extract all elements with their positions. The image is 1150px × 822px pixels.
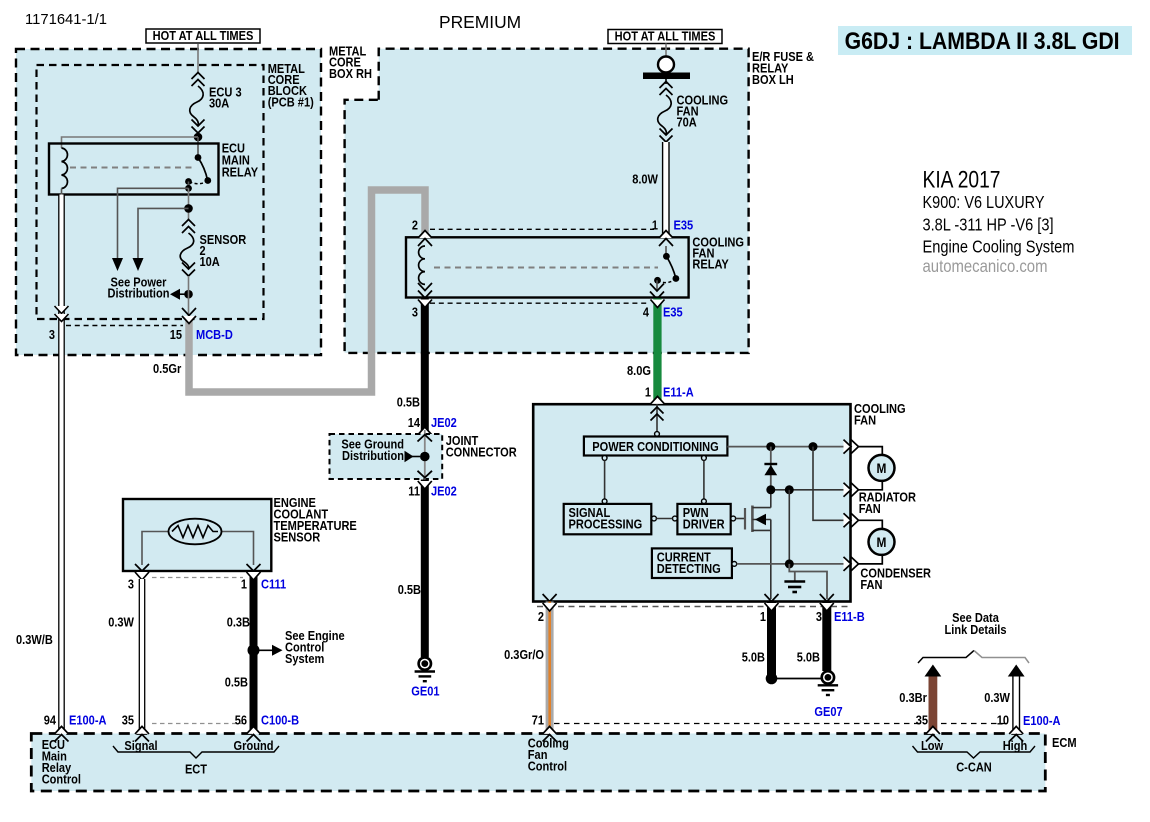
wire PC to pwn driver xyxy=(703,461,705,500)
svg-text:15: 15 xyxy=(170,327,182,342)
svg-text:1: 1 xyxy=(241,577,247,592)
wire from switch to down-arrow 1 xyxy=(118,188,189,258)
svg-text:0.3Br: 0.3Br xyxy=(899,690,927,705)
connector E100-A dashed line (right) xyxy=(554,723,925,725)
fuse SENSOR 2 10A xyxy=(180,220,195,277)
svg-text:0.5B: 0.5B xyxy=(398,582,421,597)
connector C111 dashed line xyxy=(152,577,243,579)
label HOT AT ALL TIMES (left) xyxy=(146,29,260,43)
chevron ECM pin 35 right xyxy=(926,726,940,734)
svg-text:8.0G: 8.0G xyxy=(627,363,651,378)
svg-text:E100-A: E100-A xyxy=(1023,713,1061,728)
signal processing box xyxy=(564,504,652,534)
wire PWN to mosfet gate xyxy=(731,516,736,521)
svg-text:M: M xyxy=(877,460,887,476)
svg-text:0.5B: 0.5B xyxy=(397,395,420,410)
wire from node to relay coil xyxy=(62,137,199,148)
ground GE07 xyxy=(822,671,834,683)
svg-text:35: 35 xyxy=(122,713,134,728)
relay coil (cooling fan relay) xyxy=(419,246,425,284)
wire from switch down below box xyxy=(188,188,190,219)
ground GE01 xyxy=(419,657,431,669)
output chevrons on module right edge xyxy=(844,440,852,454)
chevron module pin 2 xyxy=(543,594,557,602)
svg-text:E35: E35 xyxy=(663,305,683,320)
svg-text:10: 10 xyxy=(997,713,1009,728)
node at sensor fuse output xyxy=(184,290,193,299)
motor M1 radiator fan xyxy=(869,455,895,481)
svg-text:ECT: ECT xyxy=(185,762,207,777)
svg-text:G6DJ : LAMBDA II 3.8L GDI: G6DJ : LAMBDA II 3.8L GDI xyxy=(845,28,1120,55)
svg-text:0.3B: 0.3B xyxy=(227,615,250,630)
chevron module pin 3 xyxy=(820,594,834,602)
svg-text:MCB-D: MCB-D xyxy=(196,327,233,342)
down-arrow 2 (see power distribution) xyxy=(133,258,144,271)
cooling fan relay box xyxy=(406,237,689,297)
relay switch (cooling fan relay) xyxy=(665,246,667,256)
svg-text:C111: C111 xyxy=(261,577,286,592)
chevron ECM pin 10 right xyxy=(1009,726,1023,734)
wire node to current detect junction xyxy=(788,490,790,564)
data link bracket xyxy=(918,651,974,664)
svg-text:BOX LH: BOX LH xyxy=(752,72,794,87)
wire 0.3Gr/O module pin 2 to ECM pin 71 xyxy=(546,602,554,733)
label HOT AT ALL TIMES (right) xyxy=(608,30,722,44)
relay switch contacts xyxy=(195,154,202,161)
svg-text:RELAY: RELAY xyxy=(222,165,259,180)
svg-text:1171641-1/1: 1171641-1/1 xyxy=(25,12,107,28)
wire 0.3B black sensor pin 1 to ECM pin 56 xyxy=(250,571,258,733)
svg-text:SENSOR: SENSOR xyxy=(274,530,321,545)
svg-text:FAN: FAN xyxy=(859,501,881,516)
svg-text:HOT AT ALL TIMES: HOT AT ALL TIMES xyxy=(153,28,254,43)
svg-text:0.3W/B: 0.3W/B xyxy=(16,632,53,647)
svg-text:70A: 70A xyxy=(677,115,698,130)
svg-text:94: 94 xyxy=(44,713,57,728)
fusible link circle xyxy=(658,57,674,73)
motor M2 condenser fan xyxy=(869,529,895,555)
chevron sensor pin 1 xyxy=(247,564,261,571)
wire green entry to power conditioning xyxy=(656,404,658,434)
svg-text:automecanico.com: automecanico.com xyxy=(923,256,1048,276)
connector E11-B dashed line xyxy=(537,606,848,608)
svg-text:2: 2 xyxy=(412,218,418,233)
svg-text:8.0W: 8.0W xyxy=(632,172,658,187)
metal core block PCB#1 (inner dashed box) xyxy=(37,65,264,319)
internal ground wire xyxy=(789,564,827,599)
svg-text:K900: V6 LUXURY: K900: V6 LUXURY xyxy=(923,192,1045,212)
arrow left to see power distribution xyxy=(178,293,189,295)
svg-text:JE02: JE02 xyxy=(431,415,457,430)
chevron ECM pin 94 xyxy=(55,726,69,734)
wire to condenser fan motor xyxy=(859,520,883,529)
svg-text:2: 2 xyxy=(538,609,544,624)
connector dashed sides C111 to C100-B xyxy=(141,580,143,724)
E/R fuse & relay box LH (dashed blue box with notch) xyxy=(345,49,749,353)
svg-text:1: 1 xyxy=(652,218,658,233)
svg-text:4: 4 xyxy=(643,305,650,320)
svg-text:System: System xyxy=(285,651,324,666)
svg-text:FAN: FAN xyxy=(860,577,882,592)
chevron relay pin 2 xyxy=(418,231,432,239)
wire 0.5B black JE02 pin 11 to GE01 xyxy=(421,480,429,658)
current detecting box xyxy=(652,548,732,578)
wire 0.3W/B white double from relay coil to ECM pin 94 xyxy=(59,195,64,733)
wire node into relay switch xyxy=(197,137,199,158)
svg-text:HOT AT ALL TIMES: HOT AT ALL TIMES xyxy=(615,29,716,44)
wire 0.3W white CAN high xyxy=(1013,676,1020,731)
transistor Q1 (mosfet) xyxy=(744,508,746,530)
svg-text:E35: E35 xyxy=(674,218,694,233)
svg-text:DRIVER: DRIVER xyxy=(683,516,725,531)
chevron sensor pin 3 xyxy=(135,564,149,571)
wire from hot label down xyxy=(197,44,199,72)
svg-text:35: 35 xyxy=(916,713,928,728)
brace C-CAN xyxy=(913,746,1036,758)
chevron JE02 pin 14 xyxy=(418,427,432,435)
node junction below fuse ECU3 xyxy=(194,133,203,142)
wire inside joint connector xyxy=(424,430,426,496)
svg-text:RELAY: RELAY xyxy=(692,257,729,272)
chevron E11-A module entry xyxy=(651,396,665,404)
wire 5.0B module pin 3 to GE07 xyxy=(822,602,831,672)
svg-text:GE01: GE01 xyxy=(411,684,439,699)
wire 0.5Gr thick gray MCB-D to cooling fan relay pin 2 xyxy=(189,190,425,392)
svg-text:Distribution: Distribution xyxy=(342,448,404,463)
fuse ECU 3 30A xyxy=(190,73,205,134)
brace ECT xyxy=(113,746,279,758)
svg-text:PROCESSING: PROCESSING xyxy=(569,516,643,531)
svg-text:Low: Low xyxy=(921,738,944,753)
svg-text:5.0B: 5.0B xyxy=(742,650,765,665)
svg-text:CONNECTOR: CONNECTOR xyxy=(446,445,518,460)
svg-text:30A: 30A xyxy=(209,96,230,111)
svg-text:E100-A: E100-A xyxy=(69,713,107,728)
wire PC to signal processing xyxy=(604,461,606,500)
wire from node to down-arrow 2 xyxy=(138,208,189,258)
svg-text:FAN: FAN xyxy=(854,413,876,428)
cooling fan module box xyxy=(533,404,850,601)
svg-text:3: 3 xyxy=(128,577,134,592)
wire 0.5B black relay pin 3 to JE02 pin 14 xyxy=(421,298,429,434)
svg-text:3: 3 xyxy=(816,609,822,624)
wire current detecting to output 4 xyxy=(732,562,737,567)
fuse COOLING FAN 70A xyxy=(658,79,673,142)
svg-text:0.5Gr: 0.5Gr xyxy=(153,361,181,376)
svg-text:3: 3 xyxy=(49,327,55,342)
pwn driver box xyxy=(677,504,730,534)
svg-text:DETECTING: DETECTING xyxy=(657,561,721,576)
svg-text:High: High xyxy=(1003,738,1028,753)
diode D1 xyxy=(770,447,772,491)
thermistor element (ellipse with zigzag) xyxy=(169,519,222,545)
wire PC output to right edge xyxy=(727,446,849,448)
svg-text:Ground: Ground xyxy=(234,738,274,753)
svg-text:SENSOR: SENSOR xyxy=(200,232,247,247)
svg-text:GE07: GE07 xyxy=(814,704,842,719)
node on PC output 2 xyxy=(809,442,818,451)
see ground distribution arrow xyxy=(412,456,420,458)
svg-text:0.3W: 0.3W xyxy=(984,690,1010,705)
svg-text:C-CAN: C-CAN xyxy=(956,760,992,775)
svg-text:0.3W: 0.3W xyxy=(108,615,134,630)
svg-text:(PCB #1): (PCB #1) xyxy=(268,95,314,110)
wire 8.0W white double fuse to relay pin 1 xyxy=(663,142,669,237)
down-arrow 1 (see power distribution) xyxy=(112,258,123,271)
chevron coil bottom xyxy=(418,283,432,291)
svg-text:Engine Cooling System: Engine Cooling System xyxy=(923,236,1075,256)
bus bar (thick black) xyxy=(643,73,690,80)
chevron module pin 1 xyxy=(765,594,779,602)
wire from hot label to fusible link xyxy=(665,44,667,58)
arrow to see engine control system xyxy=(254,649,273,651)
chevron ECM pin 71 xyxy=(543,726,557,734)
svg-text:KIA 2017: KIA 2017 xyxy=(923,167,1001,194)
svg-text:0.5B: 0.5B xyxy=(225,675,248,690)
chevron relay pin 4 xyxy=(650,284,664,292)
radiator fan feed wire xyxy=(771,489,849,491)
svg-text:3: 3 xyxy=(412,305,418,320)
svg-text:BOX RH: BOX RH xyxy=(329,66,372,81)
svg-text:Link Details: Link Details xyxy=(945,622,1007,637)
connector E35 dashed line (top) xyxy=(430,228,654,230)
relay coil stub to box edge xyxy=(61,189,63,196)
svg-text:Control: Control xyxy=(528,759,567,774)
node inside joint connector xyxy=(420,452,430,462)
svg-text:Distribution: Distribution xyxy=(108,286,170,301)
relay internal dashed line xyxy=(70,167,194,169)
relay coil (ECU main relay) xyxy=(62,148,68,189)
svg-text:C100-B: C100-B xyxy=(261,713,299,728)
arrow up inside joint connector xyxy=(418,435,433,442)
wire 5.0B module pin 1 xyxy=(767,602,776,680)
svg-text:E11-A: E11-A xyxy=(663,385,694,400)
svg-text:1: 1 xyxy=(645,385,651,400)
node below relay box xyxy=(184,204,193,213)
wire 0.3W white double sensor pin 3 to ECM pin 35 xyxy=(139,579,144,733)
engine coolant temperature sensor box xyxy=(123,499,271,571)
pins under power conditioning xyxy=(602,456,607,461)
title G6DJ : LAMBDA II 3.8L GDI xyxy=(838,26,1132,55)
wire to radiator fan motor xyxy=(859,447,883,455)
chevron wire 0.3W/B at MCB-D xyxy=(55,306,69,314)
svg-text:JE02: JE02 xyxy=(431,484,457,499)
ground (module internal) xyxy=(794,572,796,582)
connector E35 dashed line (bottom) xyxy=(430,302,650,304)
svg-text:Signal: Signal xyxy=(124,738,157,753)
svg-text:3.8L -311 HP -V6 [3]: 3.8L -311 HP -V6 [3] xyxy=(923,214,1054,234)
svg-text:PREMIUM: PREMIUM xyxy=(439,12,521,32)
wire fuse to MCB-D pin 15 xyxy=(188,276,190,316)
ECM box (bottom strip) xyxy=(31,734,1045,792)
chevron ECM pin 56 xyxy=(247,726,261,734)
svg-text:ECM: ECM xyxy=(1052,735,1077,750)
wire node to output 3 xyxy=(813,447,849,521)
svg-text:Control: Control xyxy=(42,772,81,787)
svg-text:M: M xyxy=(877,534,887,550)
chevron ECM pin 35 xyxy=(135,726,149,734)
svg-text:0.3Gr/O: 0.3Gr/O xyxy=(504,647,544,662)
wire 8.0G green relay pin 4 to cooling fan module xyxy=(653,298,661,404)
svg-text:10A: 10A xyxy=(200,254,221,269)
joint connector box (dashed) xyxy=(330,434,443,479)
wire 0.3Br brown CAN low xyxy=(929,676,938,731)
metal core box RH (outer dashed blue box) xyxy=(16,49,321,355)
svg-text:11: 11 xyxy=(408,484,420,499)
svg-text:1: 1 xyxy=(760,609,766,624)
chevron relay pin 1 xyxy=(659,231,673,239)
sensor internal wires xyxy=(142,532,169,566)
relay internal dashed line xyxy=(434,267,658,269)
node on 0.3B wire xyxy=(248,644,260,656)
wire node to GE07 xyxy=(772,678,822,680)
chevron MCB-D pin 15 xyxy=(182,308,196,316)
wire SP to PWN xyxy=(652,516,657,521)
node on PC output 1 xyxy=(766,442,775,451)
ECU main relay box xyxy=(49,144,219,195)
svg-text:POWER CONDITIONING: POWER CONDITIONING xyxy=(592,439,719,454)
arrow down inside joint connector xyxy=(418,471,433,478)
power conditioning box xyxy=(584,437,728,456)
MCB-D connector dashed line xyxy=(66,325,183,327)
node at bottom of pin1 wire xyxy=(766,673,778,685)
svg-text:71: 71 xyxy=(532,713,544,728)
svg-text:5.0B: 5.0B xyxy=(797,650,820,665)
svg-text:14: 14 xyxy=(408,415,421,430)
svg-text:E11-B: E11-B xyxy=(834,609,865,624)
svg-text:56: 56 xyxy=(235,713,247,728)
